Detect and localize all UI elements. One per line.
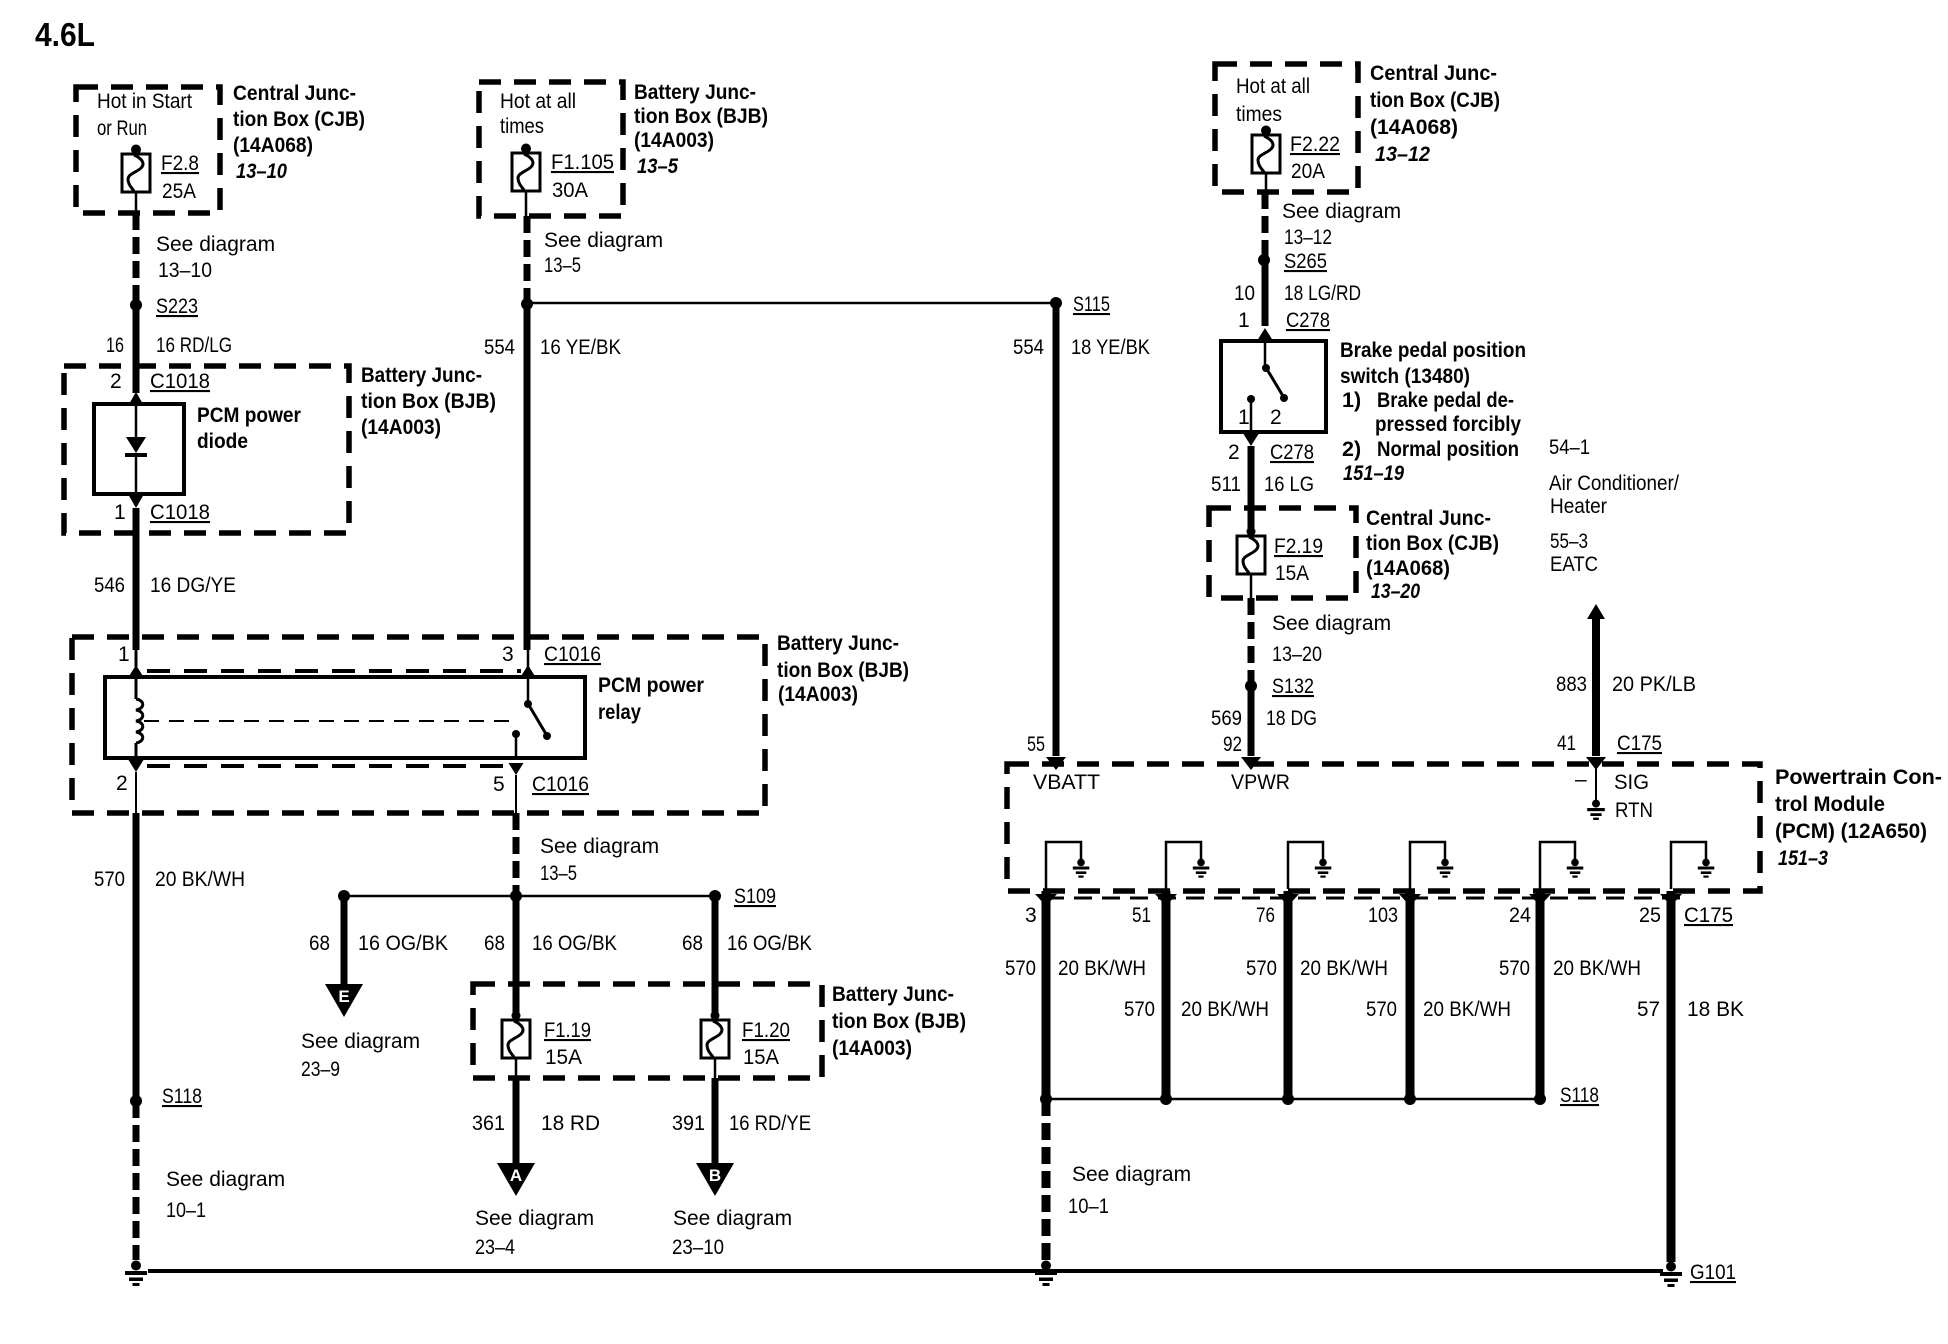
svg-text:20 BK/WH: 20 BK/WH xyxy=(1553,957,1641,980)
text 54-1 Air Conditioner/Heater 55-3 EATC xyxy=(1549,436,1679,576)
svg-text:C1016: C1016 xyxy=(544,643,601,666)
svg-text:16 YE/BK: 16 YE/BK xyxy=(540,336,621,359)
splice S132 xyxy=(1245,675,1314,698)
svg-text:18 YE/BK: 18 YE/BK xyxy=(1071,336,1150,359)
svg-text:511: 511 xyxy=(1211,473,1241,496)
svg-text:15A: 15A xyxy=(743,1046,779,1069)
PCM power diode xyxy=(94,404,184,494)
svg-text:10–1: 10–1 xyxy=(1068,1195,1109,1218)
svg-text:18 LG/RD: 18 LG/RD xyxy=(1284,282,1361,305)
svg-text:PCM power: PCM power xyxy=(197,403,302,427)
text See diagram 10-1 left xyxy=(166,1168,285,1222)
wire S265 to brake switch, 10 18 LG/RD xyxy=(1234,260,1361,326)
label Powertrain Control Module (PCM) (12A650) 151-3 xyxy=(1775,765,1942,870)
svg-text:Central Junc-: Central Junc- xyxy=(1366,506,1491,530)
svg-text:570: 570 xyxy=(1366,998,1397,1021)
svg-text:tion Box (BJB): tion Box (BJB) xyxy=(832,1009,966,1033)
svg-text:18 DG: 18 DG xyxy=(1266,707,1317,730)
label PCM power relay xyxy=(598,673,705,724)
svg-text:S118: S118 xyxy=(162,1085,202,1108)
svg-text:361: 361 xyxy=(472,1112,505,1135)
svg-text:tion Box (CJB): tion Box (CJB) xyxy=(233,107,365,131)
svg-text:(14A068): (14A068) xyxy=(233,133,313,157)
relay coil xyxy=(136,677,143,758)
svg-text:G101: G101 xyxy=(1690,1261,1736,1284)
text See diagram 13-12 xyxy=(1282,200,1401,249)
svg-text:13–12: 13–12 xyxy=(1284,226,1332,249)
wire S109 to F1.20, 68 16 OG/BK xyxy=(682,896,812,1016)
ground bottom left xyxy=(125,1261,147,1287)
svg-text:–: – xyxy=(1575,768,1587,791)
wire S223 to diode box, 16 RD/LG xyxy=(106,305,232,393)
svg-text:16 OG/BK: 16 OG/BK xyxy=(532,932,617,955)
svg-text:Normal position: Normal position xyxy=(1377,437,1519,461)
battery junction box BJB (F1.19 F1.20) xyxy=(473,984,822,1078)
svg-text:16: 16 xyxy=(106,334,124,357)
svg-text:C278: C278 xyxy=(1286,309,1330,332)
wire F1.20 to B, 391 16 RD/YE xyxy=(672,1078,811,1163)
battery junction box BJB (diode) xyxy=(64,366,349,533)
battery junction box BJB (F1.105) xyxy=(479,82,623,216)
svg-text:S115: S115 xyxy=(1073,293,1110,316)
label Central Junction Box (CJB) (14A068) 13-20 xyxy=(1366,506,1499,603)
svg-text:B: B xyxy=(709,1166,721,1185)
fuse F1.19 15A xyxy=(502,1011,591,1078)
text See diagram 23-4 xyxy=(475,1207,594,1259)
svg-text:18 BK: 18 BK xyxy=(1687,998,1744,1021)
wire S115 to PCM pin 55, 554 18 YE/BK xyxy=(1013,303,1150,770)
svg-text:See diagram: See diagram xyxy=(544,229,663,252)
svg-text:16 OG/BK: 16 OG/BK xyxy=(727,932,812,955)
svg-text:Hot at all: Hot at all xyxy=(500,90,576,113)
svg-text:F1.105: F1.105 xyxy=(551,151,614,174)
text See diagram 13-10 xyxy=(156,233,275,282)
svg-text:2: 2 xyxy=(1228,441,1240,464)
svg-text:Hot at all: Hot at all xyxy=(1236,75,1310,98)
svg-text:(14A068): (14A068) xyxy=(1370,115,1458,139)
ground bottom middle xyxy=(1035,1261,1057,1287)
svg-text:23–10: 23–10 xyxy=(672,1236,724,1259)
connector C1016 dashed line top xyxy=(147,669,521,673)
svg-text:times: times xyxy=(500,115,544,138)
wire relay pin5 to S109 junction (dashed) xyxy=(516,813,659,896)
PCM power relay body xyxy=(105,677,585,758)
svg-text:C1018: C1018 xyxy=(150,501,210,524)
brake pedal position switch box xyxy=(1221,341,1326,432)
svg-text:See diagram: See diagram xyxy=(1272,612,1391,635)
svg-text:1: 1 xyxy=(114,501,126,524)
svg-text:13–5: 13–5 xyxy=(540,862,577,885)
svg-text:2: 2 xyxy=(116,772,128,795)
powertrain control module PCM box xyxy=(1007,764,1760,891)
svg-text:F1.19: F1.19 xyxy=(544,1019,591,1042)
PCM pin 51 wire to S118 xyxy=(1124,891,1269,1099)
svg-text:1): 1) xyxy=(1342,388,1361,412)
arrow E destination xyxy=(325,984,363,1017)
junction box CJB (F2.8) xyxy=(76,87,220,213)
svg-text:68: 68 xyxy=(682,932,703,955)
svg-text:55: 55 xyxy=(1027,733,1045,756)
svg-text:103: 103 xyxy=(1368,904,1398,927)
connector C1018 pin 2 xyxy=(110,370,210,405)
fuse F1.20 15A xyxy=(701,1011,790,1078)
splice S115 xyxy=(1050,293,1110,316)
svg-text:See diagram: See diagram xyxy=(475,1207,594,1230)
svg-text:16 DG/YE: 16 DG/YE xyxy=(150,574,236,597)
svg-text:(14A003): (14A003) xyxy=(832,1036,912,1060)
svg-text:20 BK/WH: 20 BK/WH xyxy=(1181,998,1269,1021)
svg-text:570: 570 xyxy=(94,868,125,891)
svg-text:5: 5 xyxy=(493,773,505,796)
svg-text:569: 569 xyxy=(1211,707,1242,730)
svg-text:3: 3 xyxy=(502,643,514,666)
svg-text:or Run: or Run xyxy=(97,117,147,140)
connector C1016 dashed line bottom xyxy=(147,764,507,768)
svg-text:Central Junc-: Central Junc- xyxy=(1370,61,1497,85)
fuse F1.105 30A xyxy=(512,144,614,217)
svg-text:13–20: 13–20 xyxy=(1371,579,1420,603)
svg-text:Hot in Start: Hot in Start xyxy=(97,90,192,113)
svg-text:S109: S109 xyxy=(734,885,776,908)
fuse F2.22 20A xyxy=(1252,126,1340,193)
wire relay pin2 to S118, 570 20 BK/WH xyxy=(94,813,245,1101)
splice S265 xyxy=(1258,250,1327,273)
svg-text:16 OG/BK: 16 OG/BK xyxy=(358,932,448,955)
svg-text:S265: S265 xyxy=(1284,250,1327,273)
svg-text:(14A068): (14A068) xyxy=(1366,556,1450,580)
wire F1.105 to junction (dashed off-page) xyxy=(524,216,531,304)
label Central Junction Box (CJB) (14A068) 13-12 xyxy=(1370,61,1500,166)
svg-text:16 RD/LG: 16 RD/LG xyxy=(156,334,232,357)
label Battery Junction Box (BJB) (14A003) relay xyxy=(777,631,909,706)
svg-text:tion Box (CJB): tion Box (CJB) xyxy=(1370,88,1500,112)
PCM pin 24 wire to S118 xyxy=(1499,891,1641,1099)
PCM internal ground hook 5 xyxy=(1540,842,1583,889)
label PCM power diode xyxy=(197,403,302,453)
svg-text:2: 2 xyxy=(110,370,122,393)
relay coil-contact dashed link xyxy=(144,720,516,722)
svg-text:F2.8: F2.8 xyxy=(161,152,199,175)
svg-text:20 BK/WH: 20 BK/WH xyxy=(1423,998,1511,1021)
SIG RTN internal ground xyxy=(1575,766,1653,822)
svg-text:20 PK/LB: 20 PK/LB xyxy=(1612,673,1696,696)
svg-text:See diagram: See diagram xyxy=(673,1207,792,1230)
connector C175 dashed line bottom xyxy=(1046,897,1690,900)
svg-text:PCM power: PCM power xyxy=(598,673,705,697)
svg-text:diode: diode xyxy=(197,429,248,453)
svg-text:Powertrain Con-: Powertrain Con- xyxy=(1775,765,1942,789)
svg-text:pressed forcibly: pressed forcibly xyxy=(1375,412,1521,436)
relay pin 5 xyxy=(493,730,589,813)
relay switch pin 3 contact xyxy=(502,643,601,708)
fuse F2.8 25A xyxy=(122,145,199,214)
svg-text:25A: 25A xyxy=(162,180,196,203)
svg-text:570: 570 xyxy=(1124,998,1155,1021)
wire S109 to F1.19, 68 16 OG/BK xyxy=(484,896,617,1016)
svg-text:2): 2) xyxy=(1342,437,1361,461)
label Brake pedal position switch (13480) xyxy=(1340,338,1526,485)
svg-text:(14A003): (14A003) xyxy=(778,682,858,706)
svg-text:570: 570 xyxy=(1246,957,1277,980)
svg-text:1: 1 xyxy=(1238,309,1250,332)
svg-text:Battery Junc-: Battery Junc- xyxy=(361,363,482,387)
svg-text:76: 76 xyxy=(1256,904,1275,927)
svg-text:51: 51 xyxy=(1132,904,1151,927)
svg-text:tion Box (CJB): tion Box (CJB) xyxy=(1366,531,1499,555)
svg-text:3: 3 xyxy=(1025,904,1037,927)
svg-text:C278: C278 xyxy=(1270,441,1314,464)
svg-text:tion Box (BJB): tion Box (BJB) xyxy=(361,389,496,413)
svg-text:4.6L: 4.6L xyxy=(35,16,95,53)
svg-text:RTN: RTN xyxy=(1615,799,1653,822)
svg-text:570: 570 xyxy=(1499,957,1530,980)
svg-text:VPWR: VPWR xyxy=(1231,771,1290,794)
PCM internal ground hook 2 xyxy=(1166,842,1209,889)
battery junction box BJB (relay) xyxy=(72,637,765,813)
svg-text:554: 554 xyxy=(484,336,515,359)
svg-text:20 BK/WH: 20 BK/WH xyxy=(155,868,245,891)
wire switch to F2.19, 511 16 LG xyxy=(1211,446,1314,532)
text See diagram 23-10 xyxy=(672,1207,792,1259)
relay pin 2 xyxy=(116,760,144,813)
svg-text:24: 24 xyxy=(1509,904,1531,927)
text Hot at all times (F2.22) xyxy=(1236,75,1310,126)
svg-text:10: 10 xyxy=(1234,282,1255,305)
svg-text:See diagram: See diagram xyxy=(156,233,275,256)
svg-text:1: 1 xyxy=(118,643,130,666)
svg-text:23–9: 23–9 xyxy=(301,1058,340,1081)
splice S118 left xyxy=(130,1085,202,1108)
splice S118 right xyxy=(1040,1084,1599,1107)
fuse F2.19 15A xyxy=(1237,527,1323,598)
svg-text:C175: C175 xyxy=(1684,904,1733,927)
label Battery Junction Box (BJB) (14A003) diode xyxy=(361,363,496,439)
PCM pin 25 wire to G101, 57 18 BK xyxy=(1637,891,1744,1262)
svg-text:68: 68 xyxy=(484,932,505,955)
svg-text:16 RD/YE: 16 RD/YE xyxy=(729,1112,811,1135)
svg-text:1: 1 xyxy=(1238,406,1250,429)
svg-text:20 BK/WH: 20 BK/WH xyxy=(1058,957,1146,980)
svg-text:F2.19: F2.19 xyxy=(1274,535,1323,558)
wire F2.8 to S223 (dashed off-page) xyxy=(133,213,140,305)
splice S223 xyxy=(130,295,198,318)
junction splice col2 xyxy=(521,298,533,310)
svg-text:13–10: 13–10 xyxy=(236,159,287,183)
wire diode to relay pin 1, 546 16 DG/YE xyxy=(94,508,236,650)
PCM pin 3 wire to S118 xyxy=(1005,891,1146,1099)
svg-text:30A: 30A xyxy=(552,179,588,202)
arrow A destination xyxy=(497,1163,535,1196)
svg-text:S118: S118 xyxy=(1560,1084,1599,1107)
wire EATC to PCM pin 41, 883 20 PK/LB xyxy=(1556,604,1696,770)
connector C278 pin 2 xyxy=(1228,434,1314,464)
svg-text:Battery Junc-: Battery Junc- xyxy=(634,80,756,104)
text See diagram 10-1 right xyxy=(1068,1163,1191,1218)
text Hot at all times (F1.105) xyxy=(500,90,576,138)
PCM internal ground hook 1 xyxy=(1046,842,1089,889)
svg-text:13–10: 13–10 xyxy=(158,259,212,282)
brake switch contacts xyxy=(1238,364,1288,432)
text See diagram 23-9 xyxy=(301,1030,420,1081)
PCM internal ground hook 3 xyxy=(1288,842,1331,889)
svg-text:546: 546 xyxy=(94,574,125,597)
svg-text:EATC: EATC xyxy=(1550,553,1598,576)
svg-text:S132: S132 xyxy=(1272,675,1314,698)
svg-text:Air Conditioner/: Air Conditioner/ xyxy=(1549,472,1679,495)
svg-text:13–5: 13–5 xyxy=(544,254,581,277)
label Battery Junction Box (BJB) (14A003) 13-5 xyxy=(634,80,768,178)
svg-text:20A: 20A xyxy=(1291,160,1325,183)
label Central Junction Box (CJB) (14A068) 13-10 xyxy=(233,81,365,183)
PCM internal ground hook 4 xyxy=(1410,842,1453,889)
svg-text:tion Box (BJB): tion Box (BJB) xyxy=(634,104,768,128)
relay pin 1 xyxy=(118,643,144,677)
svg-text:Brake pedal position: Brake pedal position xyxy=(1340,338,1526,362)
svg-text:13–5: 13–5 xyxy=(637,154,679,178)
svg-text:25: 25 xyxy=(1639,904,1661,927)
svg-text:E: E xyxy=(338,987,349,1006)
PCM internal ground hook 6 xyxy=(1671,842,1714,889)
PCM pin 103 wire to S118 xyxy=(1366,891,1511,1099)
svg-text:F2.22: F2.22 xyxy=(1290,133,1340,156)
relay switch blade xyxy=(530,707,551,740)
svg-text:92: 92 xyxy=(1223,733,1242,756)
ground bus bottom line xyxy=(148,1269,1663,1273)
svg-text:41: 41 xyxy=(1557,732,1576,755)
svg-text:554: 554 xyxy=(1013,336,1044,359)
arrow B destination xyxy=(696,1163,734,1196)
svg-text:13–20: 13–20 xyxy=(1272,643,1322,666)
wire S118 to ground (dashed) xyxy=(133,1101,140,1260)
svg-text:57: 57 xyxy=(1637,998,1660,1021)
connector C278 pin 1 xyxy=(1238,309,1330,368)
svg-text:883: 883 xyxy=(1556,673,1587,696)
wire F2.22 to S265 (dashed off-page) xyxy=(1262,192,1269,260)
svg-text:23–4: 23–4 xyxy=(475,1236,515,1259)
wire junction to S115 horizontal xyxy=(527,302,1051,305)
junction box CJB (F2.19) xyxy=(1209,508,1356,598)
ground G101 xyxy=(1660,1261,1736,1287)
svg-text:A: A xyxy=(510,1166,522,1185)
svg-text:151–19: 151–19 xyxy=(1343,461,1404,485)
junction box CJB (F2.22) xyxy=(1215,64,1358,192)
svg-text:55–3: 55–3 xyxy=(1550,530,1588,553)
svg-text:C1018: C1018 xyxy=(150,370,210,393)
svg-text:C1016: C1016 xyxy=(532,773,589,796)
svg-text:15A: 15A xyxy=(545,1046,582,1069)
wire S132 to PCM pin 92, 569 18 DG xyxy=(1211,686,1317,770)
svg-text:Battery Junc-: Battery Junc- xyxy=(832,982,954,1006)
label Battery Junction Box (BJB) (14A003) fuses xyxy=(832,982,966,1060)
svg-text:13–12: 13–12 xyxy=(1375,142,1430,166)
svg-text:Battery Junc-: Battery Junc- xyxy=(777,631,899,655)
svg-text:15A: 15A xyxy=(1275,562,1309,585)
svg-text:C175: C175 xyxy=(1617,732,1662,755)
svg-text:relay: relay xyxy=(598,700,641,724)
svg-text:(14A003): (14A003) xyxy=(634,128,714,152)
svg-text:2: 2 xyxy=(1270,406,1282,429)
text See diagram 13-20 xyxy=(1272,612,1391,666)
svg-text:54–1: 54–1 xyxy=(1549,436,1590,459)
svg-text:VBATT: VBATT xyxy=(1033,771,1100,794)
svg-text:See diagram: See diagram xyxy=(166,1168,285,1191)
svg-text:F1.20: F1.20 xyxy=(742,1019,790,1042)
svg-text:See diagram: See diagram xyxy=(1072,1163,1191,1186)
svg-text:391: 391 xyxy=(672,1112,705,1135)
svg-text:20 BK/WH: 20 BK/WH xyxy=(1300,957,1388,980)
text Hot in Start or Run xyxy=(97,90,192,140)
svg-text:See diagram: See diagram xyxy=(301,1030,420,1053)
svg-text:SIG: SIG xyxy=(1614,771,1649,794)
svg-text:Heater: Heater xyxy=(1550,495,1607,518)
node S109 horizontal line xyxy=(338,885,776,908)
text See diagram 13-5 top xyxy=(544,229,663,277)
svg-text:68: 68 xyxy=(309,932,330,955)
svg-text:18 RD: 18 RD xyxy=(541,1112,600,1135)
svg-text:See diagram: See diagram xyxy=(540,835,659,858)
wire F2.19 to S132 (dashed off-page) xyxy=(1248,598,1255,686)
svg-text:See diagram: See diagram xyxy=(1282,200,1401,223)
wire F1.19 to A, 361 18 RD xyxy=(472,1078,600,1163)
wire S118 to ground (dashed, pin3 branch) xyxy=(1042,1099,1051,1260)
svg-text:570: 570 xyxy=(1005,957,1036,980)
svg-text:(PCM) (12A650): (PCM) (12A650) xyxy=(1775,819,1927,843)
svg-text:(14A003): (14A003) xyxy=(361,415,441,439)
svg-text:times: times xyxy=(1236,103,1282,126)
svg-text:tion Box (BJB): tion Box (BJB) xyxy=(777,658,909,682)
svg-text:trol Module: trol Module xyxy=(1775,792,1885,816)
svg-text:151–3: 151–3 xyxy=(1778,846,1828,870)
svg-text:Brake pedal de-: Brake pedal de- xyxy=(1377,388,1514,412)
svg-text:16 LG: 16 LG xyxy=(1264,473,1314,496)
wire junction to relay pin 3, 554 16 YE/BK xyxy=(484,304,621,650)
svg-text:Central Junc-: Central Junc- xyxy=(233,81,356,105)
svg-text:10–1: 10–1 xyxy=(166,1199,206,1222)
wire S109 branch E, 68 16 OG/BK xyxy=(309,896,448,984)
PCM pin 76 wire to S118 xyxy=(1246,891,1388,1099)
svg-text:S223: S223 xyxy=(156,295,198,318)
connector C1018 pin 1 xyxy=(114,495,210,524)
svg-text:switch (13480): switch (13480) xyxy=(1340,364,1470,388)
